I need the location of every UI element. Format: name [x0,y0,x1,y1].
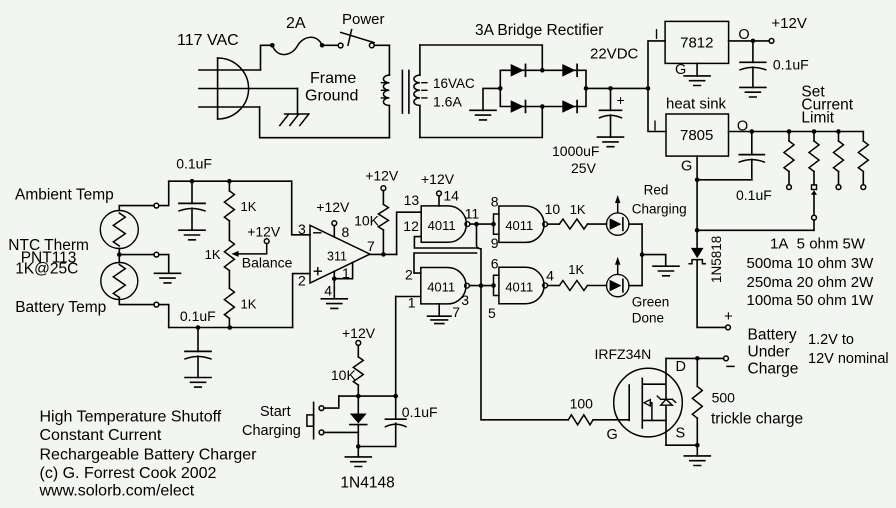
svg-text:3: 3 [298,221,306,237]
bridge diode D2 [562,64,575,77]
node fuse left [270,43,275,48]
svg-text:100: 100 [570,396,594,412]
svg-text:+: + [724,308,733,325]
capacitor C4 0.1uF [191,181,193,203]
node G-cap junction [695,178,700,183]
svg-text:Battery: Battery [748,327,797,344]
svg-text:Done: Done [632,311,664,326]
svg-text:Power: Power [342,11,385,28]
svg-text:Constant Current: Constant Current [40,427,162,444]
wire RT2 bottom to connector [119,298,154,305]
svg-text:Under: Under [748,344,790,361]
svg-text:10K: 10K [331,367,357,383]
jumper square terminal [812,185,817,190]
wire 7805 output rail [729,131,864,133]
svg-text:G: G [681,159,692,175]
svg-text:4011: 4011 [427,280,455,295]
AC plug P1 [217,58,219,119]
svg-text:1: 1 [342,265,350,281]
wire gate4 output [548,285,560,287]
311 pin 8 supply [333,226,335,237]
wire gate2 pin1 riser [395,297,397,397]
svg-text:7812: 7812 [680,35,713,52]
311 pin 1 to ground [334,262,352,278]
node 22V junction [646,86,651,91]
wire plug hot to fuse [261,45,273,70]
resistor R divider top 1K [228,181,230,191]
wire top rail to pin 3 [169,180,292,182]
svg-text:G: G [607,427,618,443]
wire start ground [358,446,395,448]
wire secondary bottom to bridge [420,107,542,138]
wire green LED cathode [629,285,642,287]
ground [470,110,496,120]
svg-text:+12V: +12V [316,199,350,215]
ground [155,273,181,283]
svg-text:1N5818: 1N5818 [709,236,724,283]
node drain [695,356,700,361]
LED green [607,274,629,296]
wire connector to bottom rail [159,305,169,328]
svg-text:22VDC: 22VDC [590,46,639,63]
svg-text:12V nominal: 12V nominal [808,351,889,367]
wire fuse to switch [322,44,338,46]
svg-text:+12V: +12V [421,171,455,187]
wire MOSFET source [666,444,697,446]
svg-text:4011: 4011 [505,280,533,295]
svg-text:8: 8 [342,224,350,240]
node rail-cap bottom [196,325,201,330]
MOSFET drain tap [642,358,666,399]
gate pin 14 supply [438,196,440,206]
svg-text:4011: 4011 [428,218,456,233]
wire gate1 output [470,223,494,225]
node gate3 input [491,222,496,227]
ground [345,457,371,467]
svg-text:I: I [653,119,657,135]
svg-text:0.1uF: 0.1uF [736,187,772,203]
wire MOSFET drain to battery minus [666,357,723,359]
resistor R gate 100 [568,415,593,425]
svg-text:+12V: +12V [342,325,376,341]
node bridge minus [498,86,503,91]
wire select return to G line [697,229,814,231]
pot wiper arrow [231,251,238,257]
terminal +12V [769,39,774,44]
regulator U2 7805 [666,114,729,156]
node limit R1 tap [787,129,792,134]
svg-text:500: 500 [712,390,736,406]
ground [684,76,710,86]
svg-text:Start: Start [260,404,291,420]
wire primary return to plug [260,107,390,138]
node rail-divider bottom [228,325,233,330]
svg-text:7: 7 [367,238,375,254]
svg-text:(c) G. Forrest Cook 2002: (c) G. Forrest Cook 2002 [40,465,217,482]
wire output to 4011 pin 13 [397,212,422,254]
transformer T1 core [402,70,409,113]
diode D5 1N5818 [691,248,704,258]
terminal +12V start [356,341,361,346]
resistor R divider bottom 1K [228,271,230,289]
wire 22VDC rail [586,87,648,89]
svg-text:3A Bridge Rectifier: 3A Bridge Rectifier [475,22,603,39]
svg-text:Green: Green [632,295,670,310]
resistor R pullup 10K [382,230,384,254]
ground [598,137,624,147]
svg-text:1K: 1K [205,247,221,262]
svg-text:Ground: Ground [305,88,358,105]
wire 7812 output [729,40,770,42]
gate4 input tie [494,275,499,295]
svg-text:High Temperature Shutoff: High Temperature Shutoff [40,409,222,426]
svg-text:+: + [617,92,625,108]
svg-text:100ma 50 ohm 1W: 100ma 50 ohm 1W [747,292,875,309]
resistor 5 ohm [788,132,790,142]
pushbutton S2 start [319,406,324,411]
wire 7812 ground pin [696,63,698,76]
svg-text:3: 3 [461,292,469,308]
svg-text:Frame: Frame [310,70,356,87]
gate U4D 4011 [499,267,544,303]
capacitor C1 1000uF 25V [610,88,612,110]
wire to red LED [588,223,607,225]
wire to green LED [587,285,606,287]
svg-text:13: 13 [404,192,420,208]
capacitor C6 0.1uF [395,396,397,419]
node rail-cap [190,179,195,184]
wire switch to transformer [374,44,389,46]
svg-text:25V: 25V [571,160,597,176]
svg-text:0.1uF: 0.1uF [773,57,809,73]
wire gate2 output [469,285,493,287]
wire bottom rail to pin 2 [169,327,293,329]
wire LED common [641,224,643,286]
311 minus input mark [314,232,321,234]
wire RT1 top to connector [119,206,154,211]
terminal battery plus [726,325,731,330]
svg-text:1K: 1K [568,262,584,277]
svg-text:www.solorb.com/elect: www.solorb.com/elect [39,483,195,500]
node bridge plus [584,86,589,91]
ground [696,445,698,456]
svg-text:2: 2 [405,267,413,283]
resistor 10 ohm [813,132,815,142]
wire red LED cathode [629,223,642,225]
svg-text:trickle charge: trickle charge [711,411,803,428]
svg-text:heat sink: heat sink [666,96,727,113]
svg-text:4: 4 [546,268,554,284]
node G-select junction [695,228,700,233]
ground [653,266,679,276]
bridge diode D4 [562,100,575,113]
ground [185,378,211,388]
node source-ground [695,443,700,448]
capacitor C5 0.1uF [197,328,199,352]
svg-text:+12V: +12V [365,168,399,184]
resistor R5 10K [357,345,359,357]
svg-text:Ambient Temp: Ambient Temp [15,187,114,204]
LED red [607,213,629,235]
svg-text:2: 2 [298,273,306,289]
ground [740,87,766,97]
svg-text:4: 4 [324,283,332,299]
frame ground symbol [285,113,309,115]
wire latch output to gate resistor [477,224,569,420]
resistor R4 1K [559,281,587,291]
wire secondary top to bridge [420,45,542,70]
svg-text:1: 1 [408,295,416,311]
svg-text:250ma 20 ohm 2W: 250ma 20 ohm 2W [747,274,875,291]
transformer T1 primary winding [388,45,390,75]
node 12V [751,39,756,44]
svg-text:14: 14 [443,188,459,204]
svg-text:500ma 10 ohm 3W: 500ma 10 ohm 3W [747,255,875,272]
wire jumper [813,195,815,215]
resistor 50 ohm [862,132,864,142]
311 plus input mark [314,268,321,275]
wire cap to 7805 ground pin [697,179,752,181]
MOSFET channel bar [641,378,643,428]
wire pin 1 [396,296,421,298]
capacitor C3 0.1uF [750,129,755,134]
node bridge AC top [540,68,545,73]
svg-text:7: 7 [452,304,460,320]
wire connector to top rail [159,181,169,205]
capacitor C2 0.1uF [752,41,754,62]
wire 22V to 7805 input [648,88,666,131]
node fuse right [320,43,325,48]
svg-text:Balance: Balance [242,255,293,271]
potentiometer R balance 1K [224,240,234,270]
wire gate3 output [548,223,560,225]
MOSFET gate bar [628,385,630,420]
gate U4B 4011 [421,268,466,304]
wire gate lead [593,419,629,421]
svg-text:+12V: +12V [247,224,281,240]
node output-pullup [381,252,386,257]
svg-text:0.1uF: 0.1uF [402,404,438,420]
svg-text:5: 5 [488,305,496,321]
svg-text:117 VAC: 117 VAC [177,32,239,49]
svg-text:1K: 1K [241,199,257,214]
svg-text:1.6A: 1.6A [433,94,462,110]
svg-text:1K@25C: 1K@25C [15,261,78,278]
node limit R3 tap [836,129,841,134]
svg-text:12: 12 [403,218,419,234]
svg-text:Charging: Charging [242,423,301,439]
svg-text:Rechargeable Battery Charger: Rechargeable Battery Charger [40,447,258,464]
node gate4 input [491,283,496,288]
node latch output [479,283,484,288]
thermistor RT1 ambient [100,211,138,249]
svg-text:10: 10 [545,201,561,217]
diode D6 1N4148 [357,396,359,413]
bridge diode D3 [511,100,524,113]
wire mid connector to ground [159,255,169,274]
MOSFET source tap [642,419,666,421]
wire start node [339,395,396,397]
node rail-divider [227,179,232,184]
wire to LED ground [642,255,666,267]
fuse F1 2A [272,37,322,54]
terminal battery minus [724,356,729,361]
311 pin 4 ground [333,271,335,299]
wire 22V to 7812 input [648,41,665,89]
svg-text:8: 8 [491,194,499,210]
node bridge AC bottom [540,104,545,109]
wire feedback to pin 12 [414,237,478,248]
gate2 pin 7 ground [438,304,440,316]
gate U4A 4011 [421,206,466,242]
thermistor RT2 battery [101,263,138,300]
svg-text:I: I [654,27,658,43]
svg-text:+12V: +12V [771,15,806,32]
resistor R trickle 500 [696,358,698,386]
svg-text:Charge: Charge [748,361,799,378]
svg-text:1A 5 ohm 5W: 1A 5 ohm 5W [770,236,866,253]
gate U4C 4011 [499,206,544,242]
regulator U1 7812 [665,21,729,63]
svg-text:10K: 10K [354,213,380,229]
op-amp U3 LM311 [310,225,370,283]
node limit R2 tap [812,129,817,134]
svg-text:S: S [676,426,686,442]
bridge rectifier rails [500,70,586,106]
transistor Q1 IRFZ34N [614,368,683,437]
wire 7805 G line [696,156,698,248]
svg-text:Battery Temp: Battery Temp [15,299,106,316]
wire bridge minus to ground [483,88,500,110]
wire diode to battery plus [697,260,726,328]
svg-text:1K: 1K [241,297,257,312]
svg-text:16VAC: 16VAC [433,76,475,91]
wire feedback to pin 2 [414,253,477,273]
svg-text:311: 311 [327,250,347,264]
svg-text:0.1uF: 0.1uF [180,308,216,324]
svg-text:1.2V to: 1.2V to [808,332,854,348]
wire 311 output [370,253,397,255]
resistor 20 ohm [838,132,840,142]
svg-text:11: 11 [465,206,480,222]
svg-text:1K: 1K [570,202,586,217]
bridge diode D1 [511,64,524,77]
transformer T1 secondary winding [419,45,421,75]
node filter cap tap [608,86,613,91]
svg-text:9: 9 [491,235,499,251]
wire thermistor midpoint [118,249,120,263]
node gate1 out [474,222,479,227]
svg-text:1000uF: 1000uF [552,143,599,159]
svg-text:4011: 4011 [505,218,533,233]
resistor R3 1K [559,219,587,229]
svg-text:Red: Red [644,183,669,198]
wire plug middle prong to frame ground [297,89,299,115]
ground [179,230,205,240]
power switch S1 [338,43,343,48]
svg-text:6: 6 [491,256,499,272]
svg-text:1N4148: 1N4148 [340,475,394,492]
svg-text:2A: 2A [286,15,306,32]
MOSFET body arrow [644,400,650,406]
svg-text:0.1uF: 0.1uF [176,156,212,172]
svg-text:Limit: Limit [801,110,834,127]
jumper arrow [811,190,817,195]
svg-text:IRFZ34N: IRFZ34N [595,346,652,362]
svg-text:D: D [676,359,686,375]
svg-text:7805: 7805 [680,127,713,144]
svg-text:Charging: Charging [632,202,687,217]
MOSFET body diode [661,399,673,405]
gate3 input tie [494,214,499,234]
